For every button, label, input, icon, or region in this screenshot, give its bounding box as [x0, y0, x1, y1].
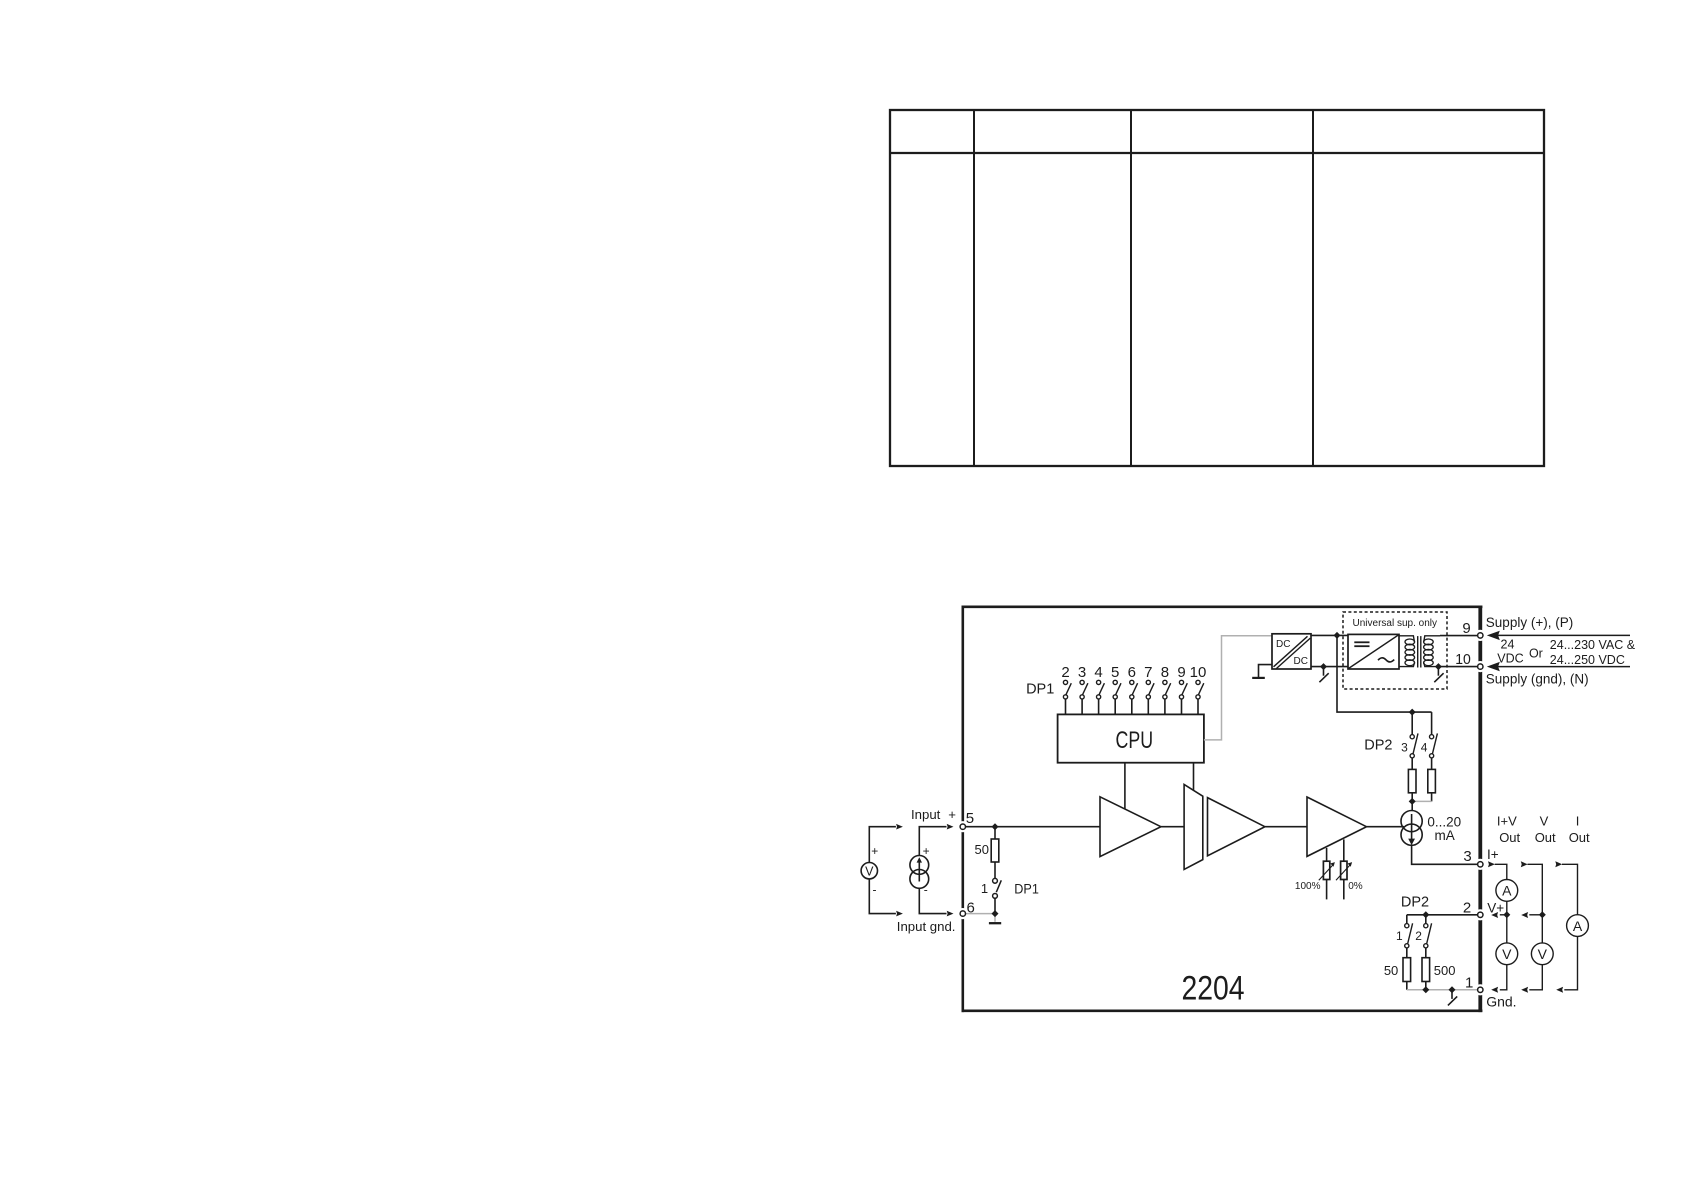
- table outer border: [890, 110, 1544, 466]
- module outline top edge: [962, 605, 1483, 608]
- svg-text:8: 8: [1161, 664, 1169, 681]
- DP1 switch bank (9 switches with wires to CPU): [1063, 680, 1071, 714]
- svg-text:6: 6: [1128, 664, 1136, 681]
- svg-text:DP1: DP1: [1026, 681, 1054, 697]
- dashed enclosure Universal sup. only: [1343, 612, 1447, 689]
- transformer secondary winding: [1424, 636, 1440, 642]
- wire V1 bottom: [869, 879, 896, 914]
- gray wire CPU to DC/DC converter: [1204, 636, 1272, 740]
- DP2 switch 2: [1424, 924, 1428, 928]
- svg-text:Universal sup. only: Universal sup. only: [1353, 618, 1437, 629]
- module outline right edge (thick terminal bar): [1478, 606, 1482, 1013]
- svg-text:1: 1: [1465, 975, 1473, 992]
- isolation amplifier output triangle: [1208, 798, 1265, 856]
- pot 0% arrowhead: [1348, 862, 1353, 867]
- terminal gap punch 10: [1475, 661, 1486, 672]
- wire resistor 500 to gnd rail: [1425, 982, 1427, 990]
- supply line to terminal 9: [1497, 634, 1630, 636]
- wire A3 to output current source: [1367, 826, 1405, 828]
- terminal gap punch 3: [1475, 859, 1486, 870]
- table column divider 1: [973, 110, 975, 466]
- DC/DC diagonal double line: [1274, 636, 1308, 667]
- svg-text:Supply (+), (P): Supply (+), (P): [1486, 615, 1573, 630]
- earth switch symbol at AC/DC input: [1323, 667, 1325, 676]
- wire CS1 top to terminal 5: [919, 827, 946, 856]
- wire switch 2 to resistor 500: [1425, 948, 1427, 958]
- DP1 switch 1 bottom contact: [993, 894, 998, 899]
- AC/DC tilde: [1378, 658, 1394, 662]
- wire switch 4 to resistor: [1431, 758, 1433, 770]
- wire terminal 2 to DP2 switches 1/2: [1407, 914, 1478, 916]
- junction dot at switch 2 top: [1422, 911, 1429, 918]
- svg-text:5: 5: [1111, 664, 1119, 681]
- potentiometer 0% body: [1341, 861, 1347, 879]
- svg-text:5: 5: [966, 810, 974, 827]
- output current source arrowhead (down): [1408, 839, 1415, 846]
- earth switch symbol at secondary: [1437, 667, 1439, 676]
- svg-text:2: 2: [1415, 929, 1422, 943]
- wire V2m to gnd rail: [1529, 965, 1542, 990]
- potentiometer 0% arrow: [1336, 865, 1350, 880]
- ground of DC/DC: [1259, 665, 1273, 677]
- svg-text:24: 24: [1501, 637, 1515, 651]
- amplifier A1 triangle: [1100, 797, 1161, 857]
- svg-text:A: A: [1502, 883, 1512, 899]
- gray wire resistor R4 to junction: [1412, 800, 1431, 802]
- svg-text:DC: DC: [1294, 656, 1308, 667]
- wire resistor R4 down: [1431, 793, 1433, 802]
- arrowhead into terminal 6 from V1: [896, 911, 903, 917]
- ground stem (gray): [994, 914, 996, 922]
- ammeter A1 circle: [1496, 880, 1518, 902]
- svg-text:50: 50: [975, 842, 989, 857]
- svg-text:24...230 VAC &: 24...230 VAC &: [1550, 638, 1636, 652]
- junction dot secondary ground: [1435, 663, 1442, 670]
- resistor R4 body: [1428, 769, 1436, 792]
- svg-text:Out: Out: [1535, 830, 1556, 845]
- junction dot top supply rail: [1334, 632, 1341, 639]
- arrowhead into terminal 1 branch2: [1521, 987, 1528, 993]
- wire V1m to gnd rail: [1500, 965, 1507, 990]
- svg-text:CPU: CPU: [1116, 727, 1154, 754]
- junction dot at resistor 50 top: [992, 823, 999, 830]
- svg-text:V: V: [865, 865, 874, 879]
- resistor 50 body: [1403, 958, 1411, 982]
- svg-text:A: A: [1573, 918, 1583, 934]
- current source CS1 circles: [910, 856, 929, 875]
- svg-text:V: V: [1502, 946, 1512, 962]
- svg-text:7: 7: [1144, 664, 1152, 681]
- svg-text:VDC: VDC: [1497, 652, 1523, 666]
- svg-text:+: +: [948, 807, 956, 822]
- svg-text:Out: Out: [1569, 830, 1590, 845]
- wire branch2 to voltmeter V2m: [1541, 915, 1543, 943]
- svg-text:V: V: [1538, 946, 1548, 962]
- table column divider 3: [1312, 110, 1314, 466]
- amplifier A3 triangle: [1307, 797, 1367, 856]
- terminal gap punch 9: [1475, 630, 1486, 641]
- arrowhead into terminal 5 from V1: [896, 824, 903, 830]
- arrowhead at terminal 10: [1487, 662, 1500, 671]
- DP1 switch 1 blade: [996, 880, 1001, 892]
- svg-text:1: 1: [981, 881, 988, 896]
- svg-text:DC: DC: [1276, 639, 1290, 650]
- svg-text:I+V: I+V: [1497, 813, 1517, 828]
- arrowhead into terminal 1 branch3: [1556, 987, 1563, 993]
- arrowhead branch3 top: [1555, 861, 1562, 867]
- terminal 2 circle: [1478, 912, 1483, 917]
- svg-text:Out: Out: [1499, 830, 1520, 845]
- svg-text:100%: 100%: [1295, 881, 1321, 892]
- svg-text:10: 10: [1455, 651, 1471, 668]
- wire CS1 bottom to terminal 6: [919, 888, 946, 913]
- wire DC/DC to AC/DC top: [1311, 634, 1348, 636]
- voltmeter V1m circle: [1496, 943, 1518, 965]
- arrowhead into terminal 6 from CS1: [947, 911, 954, 917]
- wire A2 to gnd rail: [1564, 937, 1577, 990]
- branch 2 top line: [1528, 864, 1543, 915]
- terminal 9 circle: [1478, 633, 1483, 638]
- svg-text:3: 3: [1401, 740, 1408, 754]
- arrowhead into terminal 5 from CS1: [947, 824, 954, 830]
- resistor 50 body: [991, 839, 999, 862]
- AC/DC converter box: [1348, 634, 1399, 669]
- DC/DC converter box: [1272, 634, 1311, 669]
- branch 2 arrow line toward V+: [1529, 914, 1542, 916]
- wire A1 to isolation amplifier: [1161, 826, 1184, 828]
- wire down to switch 2: [1425, 915, 1427, 924]
- svg-text:DP2: DP2: [1401, 895, 1429, 911]
- svg-text:V: V: [1540, 813, 1549, 828]
- svg-text:DP1: DP1: [1014, 880, 1039, 896]
- terminal 1 circle: [1478, 987, 1483, 992]
- output current source circles: [1401, 811, 1422, 832]
- junction dot at earth switch: [1449, 986, 1456, 993]
- wire resistor R3 to current source node: [1411, 793, 1413, 811]
- potentiometer 0% stem: [1343, 839, 1345, 861]
- arrowhead toward V+ branch2: [1521, 912, 1528, 918]
- junction dot at DP2 supply: [1409, 709, 1416, 716]
- junction dot at resistor 500 bottom: [1422, 986, 1429, 993]
- junction dot V+ branch2: [1539, 911, 1546, 918]
- transformer core: [1417, 636, 1419, 667]
- table header divider: [890, 152, 1544, 154]
- wire resistor to DP1 switch 1: [994, 862, 996, 879]
- terminal 10 circle: [1478, 664, 1483, 669]
- arrowhead branch2 top: [1521, 861, 1528, 867]
- svg-text:2204: 2204: [1181, 969, 1244, 1007]
- svg-text:DP2: DP2: [1364, 738, 1392, 754]
- svg-text:24...250 VDC: 24...250 VDC: [1550, 653, 1625, 667]
- resistor R3 body: [1408, 769, 1416, 792]
- wire down to switch 3: [1411, 712, 1413, 735]
- terminal 3 circle: [1478, 862, 1483, 867]
- wire V1 top: [869, 827, 896, 863]
- DP2 switch 3: [1410, 735, 1414, 739]
- svg-text:0...20: 0...20: [1427, 814, 1461, 829]
- svg-text:500: 500: [1434, 963, 1456, 978]
- svg-text:10: 10: [1190, 664, 1207, 681]
- svg-text:+: +: [923, 844, 930, 858]
- supply line to terminal 10: [1497, 666, 1630, 668]
- arrowhead into terminal 1 branch1: [1491, 987, 1498, 993]
- ground bar: [989, 922, 1001, 924]
- potentiometer 100% stem: [1326, 848, 1328, 861]
- svg-text:-: -: [924, 883, 928, 897]
- module outline bottom edge: [962, 1009, 1483, 1012]
- terminal gap punch 1: [1475, 984, 1486, 995]
- resistor 500 body: [1422, 958, 1430, 982]
- svg-text:Or: Or: [1529, 647, 1543, 661]
- ammeter A2 circle: [1567, 915, 1589, 937]
- voltage source V1 circle: [861, 863, 877, 879]
- svg-text:-: -: [873, 883, 877, 897]
- module outline left edge: [961, 606, 964, 1013]
- terminal gap punch 5: [957, 821, 968, 832]
- AC/DC diagonal: [1349, 635, 1399, 669]
- wire junction to resistor 50: [994, 827, 996, 839]
- svg-text:0%: 0%: [1348, 881, 1363, 892]
- DP2 switch 1: [1405, 924, 1409, 928]
- wire CPU to isolation amplifier: [1193, 763, 1195, 791]
- junction dot above current source: [1409, 798, 1416, 805]
- output current source arrow shaft: [1411, 814, 1413, 839]
- svg-text:I: I: [1576, 813, 1580, 828]
- potentiometer 100% arrow: [1319, 865, 1333, 880]
- junction dot V+ branch1: [1503, 911, 1510, 918]
- junction dot at ground node: [992, 910, 999, 917]
- svg-text:Supply (gnd), (N): Supply (gnd), (N): [1486, 672, 1589, 687]
- wire resistor 50 to gnd rail: [1406, 982, 1408, 990]
- CS1 arrow shaft: [918, 862, 920, 882]
- AC/DC equals sign: [1354, 641, 1369, 643]
- table column divider 2: [1130, 110, 1132, 466]
- svg-text:2: 2: [1463, 900, 1471, 917]
- wire secondary to terminal 10: [1440, 666, 1478, 668]
- transformer primary winding: [1399, 636, 1414, 642]
- arrowhead into terminal 2 branch1: [1491, 912, 1498, 918]
- wire switch 3 to resistor: [1411, 758, 1413, 770]
- svg-text:3: 3: [1078, 664, 1086, 681]
- svg-text:9: 9: [1177, 664, 1185, 681]
- svg-text:Gnd.: Gnd.: [1486, 994, 1516, 1010]
- wire secondary to terminal 9: [1440, 635, 1478, 637]
- junction dot bottom supply rail: [1320, 663, 1327, 670]
- svg-text:Input: Input: [911, 807, 941, 822]
- pot 100% arrowhead: [1330, 862, 1335, 867]
- gnd rail to terminal 1 (gray): [1407, 989, 1478, 991]
- terminal 5 circle: [960, 824, 965, 829]
- gray wire terminal 6 to ground node: [966, 913, 996, 915]
- potentiometer 100% body: [1323, 861, 1329, 879]
- svg-text:3: 3: [1463, 848, 1471, 865]
- earth switch symbol at gnd rail: [1451, 990, 1453, 999]
- wire isolation amp to amplifier A3: [1265, 826, 1307, 828]
- wire A1 to V+ node: [1506, 901, 1508, 915]
- svg-text:Input gnd.: Input gnd.: [897, 919, 956, 934]
- svg-text:I+: I+: [1487, 847, 1499, 862]
- terminal gap punch 6: [957, 908, 968, 919]
- svg-text:mA: mA: [1435, 828, 1455, 843]
- arrowhead out of terminal 3 branch1: [1488, 861, 1495, 867]
- svg-text:+: +: [871, 844, 878, 858]
- wire DC/DC to AC/DC bottom: [1311, 666, 1348, 668]
- arrowhead at terminal 9: [1487, 631, 1500, 640]
- svg-text:9: 9: [1462, 620, 1470, 637]
- svg-text:50: 50: [1384, 963, 1398, 978]
- wire switch 1 to resistor 50: [1406, 948, 1408, 958]
- svg-text:4: 4: [1094, 664, 1102, 681]
- wire CPU to amplifier 1: [1124, 763, 1126, 809]
- CPU box U1: [1058, 714, 1204, 762]
- svg-text:2: 2: [1061, 664, 1069, 681]
- input signal wire from terminal 5 to amplifier: [966, 826, 1101, 828]
- wire V+ node to voltmeter V1m: [1506, 915, 1508, 943]
- wire V+ node to terminal 2 arrow: [1500, 914, 1507, 916]
- wire current source to terminal 3: [1412, 845, 1478, 864]
- wire switch to ground node: [994, 898, 996, 913]
- CS1 arrow head (up): [917, 857, 922, 862]
- wire down to switch 1: [1406, 915, 1408, 924]
- branch 1: terminal 3 to ammeter A1: [1495, 864, 1507, 879]
- DP1 switch 1 top contact: [993, 878, 998, 883]
- wire supply rail to DP2 switches 3/4: [1337, 635, 1432, 712]
- svg-text:1: 1: [1396, 929, 1403, 943]
- DP2 switch 4: [1430, 735, 1434, 739]
- voltmeter V2m circle: [1531, 943, 1553, 965]
- terminal 6 circle: [960, 911, 965, 916]
- wire down to switch 4: [1431, 712, 1433, 735]
- branch 3 top line: [1562, 864, 1578, 914]
- svg-text:4: 4: [1421, 740, 1428, 754]
- isolation amplifier input section: [1184, 784, 1203, 869]
- terminal gap punch 2: [1475, 909, 1486, 920]
